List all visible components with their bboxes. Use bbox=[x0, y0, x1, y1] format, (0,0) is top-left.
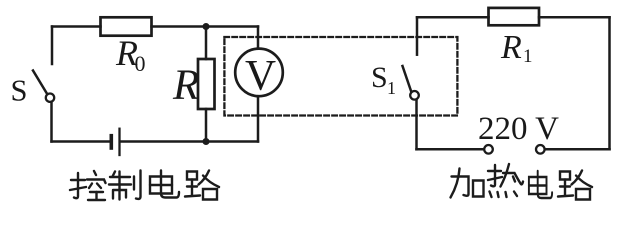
battery long plate bbox=[118, 129, 120, 155]
wire right-circuit left side upper bbox=[416, 17, 419, 54]
wire V branch lower bbox=[257, 96, 260, 141]
wire top-left segment bbox=[52, 25, 101, 28]
svg-text:1: 1 bbox=[387, 78, 396, 98]
voltmeter V circle bbox=[235, 49, 283, 97]
wire bottom to left plug terminal bbox=[417, 148, 485, 151]
caption left char 控 bbox=[70, 171, 106, 200]
svg-text:0: 0 bbox=[135, 51, 146, 76]
svg-text:220 V: 220 V bbox=[478, 111, 559, 147]
wire V branch upper bbox=[257, 27, 260, 49]
battery short plate bbox=[110, 136, 114, 148]
caption right char 加 bbox=[451, 169, 484, 198]
wire battery to node B bbox=[121, 140, 258, 143]
wire R to node B bbox=[205, 109, 208, 142]
resistor R bbox=[198, 59, 215, 109]
svg-text:R: R bbox=[500, 29, 522, 66]
svg-text:S: S bbox=[11, 74, 28, 108]
wire top right-circuit left segment bbox=[417, 16, 489, 19]
wire left side lower bbox=[50, 102, 53, 141]
node B junction dot bbox=[203, 138, 210, 145]
wire S1 lower bbox=[415, 100, 418, 149]
caption right char 路 bbox=[558, 171, 592, 200]
node A junction dot bbox=[203, 23, 210, 30]
svg-text:V: V bbox=[245, 53, 276, 100]
svg-text:R: R bbox=[172, 62, 199, 109]
wire node A down to R bbox=[205, 27, 208, 60]
wire R1 to top-right corner bbox=[539, 16, 610, 19]
caption left char 路 bbox=[185, 171, 219, 200]
resistor R0 bbox=[101, 17, 152, 35]
caption left char 制 bbox=[109, 171, 141, 200]
caption right char 热 bbox=[488, 164, 523, 197]
plug terminal right circle bbox=[536, 145, 545, 154]
caption right char 电 bbox=[529, 171, 552, 198]
wire bottom-left to battery bbox=[52, 140, 111, 143]
svg-text:1: 1 bbox=[523, 46, 533, 67]
plug terminal left circle bbox=[484, 145, 493, 154]
switch S terminal circle bbox=[46, 94, 54, 102]
caption left char 电 bbox=[150, 171, 179, 198]
resistor R1 bbox=[489, 8, 540, 25]
svg-text:S: S bbox=[371, 61, 388, 94]
switch S1 blade bbox=[403, 66, 412, 92]
switch S1 terminal circle bbox=[410, 91, 419, 100]
switch S blade bbox=[33, 71, 47, 95]
dashed relay box bbox=[224, 37, 457, 116]
wire R0 to node A bbox=[152, 25, 259, 28]
wire right plug terminal to corner bbox=[545, 148, 610, 151]
wire right-circuit right side bbox=[608, 17, 611, 149]
wire left side upper bbox=[51, 27, 54, 65]
